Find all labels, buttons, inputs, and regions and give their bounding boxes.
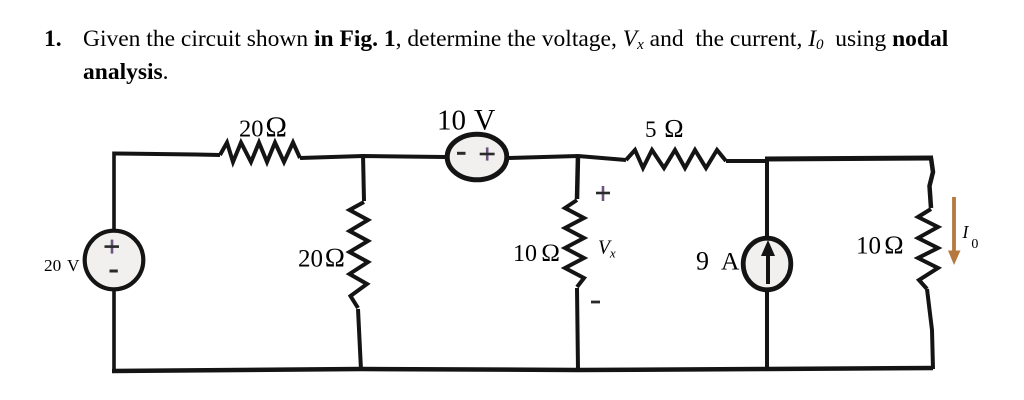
resistor R2 20ohm vertical [350, 202, 369, 308]
resistor R4 10ohm vertical Vx [565, 200, 584, 287]
voltage source V1 20V circle [85, 231, 144, 290]
wire left branch lower [112, 291, 116, 371]
wire top rail right [765, 158, 933, 159]
svg-text:V: V [474, 104, 495, 136]
wire top rail left [114, 154, 220, 156]
svg-text:10Ω: 10Ω [856, 231, 904, 260]
svg-text:5Ω: 5Ω [645, 114, 684, 143]
wire 20ohm shunt bottom stub [358, 309, 361, 370]
current arrow I0 [948, 197, 961, 265]
wire bottom rail [112, 368, 933, 371]
wire top rail middle [300, 156, 445, 158]
plus sign Vx polarity [596, 186, 610, 201]
svg-text:I0: I0 [962, 222, 979, 252]
svg-text:Vx: Vx [598, 238, 616, 261]
resistor R3 5ohm horizontal [626, 150, 726, 168]
wire 10V right lead [509, 156, 626, 160]
wire Vx bottom stub [577, 288, 578, 370]
wire right branch upper [930, 158, 934, 208]
minus sign Vx polarity [591, 301, 600, 304]
minus sign in V2 [457, 152, 466, 155]
svg-text:20Ω: 20Ω [239, 112, 287, 144]
svg-text:20Ω: 20Ω [298, 243, 345, 273]
arrow in 9A source [761, 240, 775, 284]
wire 20ohm shunt top stub [363, 154, 364, 201]
svg-text:9: 9 [696, 247, 709, 276]
wire 5ohm to junction [726, 159, 767, 163]
wire 9A top stub [765, 160, 769, 236]
resistor R1 20ohm horizontal [220, 143, 300, 163]
current source I1 9A [743, 238, 791, 290]
voltage source V2 10V ellipse [447, 134, 507, 180]
svg-text:10Ω: 10Ω [513, 240, 560, 267]
minus sign in V1 [110, 270, 118, 273]
svg-text:20V: 20V [44, 256, 80, 275]
svg-text:10: 10 [437, 104, 466, 136]
plus sign in V2 [480, 147, 495, 160]
svg-text:A: A [721, 247, 740, 276]
wire left branch upper [112, 152, 116, 230]
plus sign in V1 [105, 240, 120, 254]
wire Vx node stub [577, 155, 578, 199]
wire right branch lower [927, 289, 933, 369]
resistor R5 10ohm vertical right [918, 209, 938, 289]
wire 9A bottom stub [765, 292, 769, 369]
